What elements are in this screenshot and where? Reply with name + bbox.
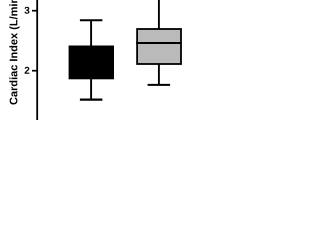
boxplot 2 (gray) median line: [136, 42, 182, 44]
boxplot 2 (gray) bottom cap: [148, 84, 171, 86]
boxplot 1 (black) bottom cap: [80, 98, 103, 100]
boxplot 1 (black) bottom whisker: [90, 79, 92, 100]
y-axis label: [9, 0, 19, 105]
boxplot 1 (black) top whisker: [90, 20, 92, 46]
tick label 2: [25, 67, 30, 74]
boxplot 1 (black) box: [69, 46, 114, 80]
tick mark 3: [32, 10, 37, 12]
tick mark 2: [32, 70, 37, 72]
tick label 3: [24, 7, 29, 14]
boxplot 2 (gray) box: [137, 29, 181, 64]
boxplot 2 (gray) top whisker: [158, 0, 160, 29]
y-axis spine: [36, 0, 38, 120]
boxplot 1 (black) top cap: [80, 19, 103, 21]
boxplot 2 (gray) bottom whisker: [158, 64, 160, 85]
